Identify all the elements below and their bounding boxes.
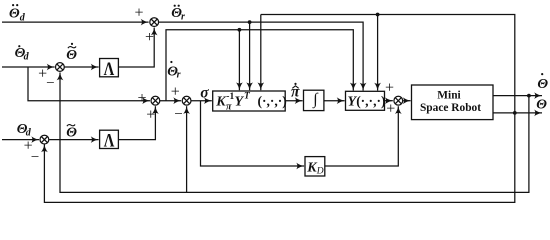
svg-text:r: r [177, 70, 181, 81]
svg-text:D: D [316, 167, 324, 177]
junction dot theta-dot output [527, 94, 531, 98]
svg-text:+: + [146, 106, 155, 123]
wire theta output [493, 112, 542, 114]
wire theta-d-r wrap to Y block [166, 30, 353, 101]
wire KD block to S6 [325, 106, 398, 166]
wire Y block to S6 [385, 100, 393, 102]
summing junction S2 [56, 63, 65, 72]
svg-text:−: − [31, 149, 39, 165]
junction dot theta-d-r branch [238, 28, 242, 32]
wire theta top into Kpi block [260, 15, 262, 91]
label theta-tilde-dot row2 [66, 43, 77, 63]
svg-text:Θ: Θ [66, 126, 77, 141]
wire Lambda1 to S1 [119, 28, 155, 67]
wire theta-dot feedback bottom [60, 73, 529, 193]
summing junction S3 [40, 135, 49, 144]
wire S2 to Lambda1 [64, 66, 98, 68]
wire theta feedback top wrap [44, 15, 514, 203]
svg-text:T: T [244, 92, 251, 102]
svg-text:-1: -1 [226, 92, 234, 102]
svg-text:+: + [145, 29, 154, 46]
block Lambda1 [100, 59, 119, 77]
svg-text:Mini: Mini [437, 89, 460, 101]
wire theta top into Y block [377, 15, 379, 91]
block Y regressor [346, 91, 385, 110]
wire theta-dd-r from S1 to Y block top [159, 22, 363, 90]
svg-text:Y: Y [235, 94, 245, 109]
label theta-d-d [15, 45, 30, 62]
svg-text:Λ: Λ [104, 58, 115, 79]
label theta-dd-d [9, 4, 26, 23]
svg-text:Λ: Λ [104, 130, 115, 151]
wire Lambda2 to S4 [119, 106, 156, 139]
wire theta-dot output [493, 95, 542, 97]
wire integrator to Y block [324, 100, 345, 102]
summing junction S4 [151, 96, 160, 105]
wire branch theta-dd-r down into Kpi block [249, 22, 251, 90]
svg-text:π: π [226, 101, 232, 112]
svg-text:(·,·,·): (·,·,·) [258, 93, 287, 108]
svg-text:Θ: Θ [9, 7, 20, 22]
svg-text:−: − [46, 75, 54, 91]
svg-text:σ: σ [200, 84, 209, 101]
block KD [305, 157, 325, 176]
junction dot theta-dd-r branch [248, 20, 252, 24]
wire theta-dot feedback into S5 [186, 106, 188, 192]
svg-text:+: + [386, 101, 395, 118]
wire Kpi block to integrator [285, 100, 302, 102]
svg-text:+: + [385, 80, 394, 97]
label theta-tilde row4 [66, 125, 77, 141]
svg-text:+: + [171, 84, 180, 101]
svg-text:r: r [181, 11, 185, 22]
wire S5 to Kpi block [191, 100, 212, 102]
wire theta-d input line [2, 139, 39, 141]
wire theta-d-d branch to S4 [28, 67, 150, 101]
wire theta-d-d input line [2, 66, 55, 68]
wire S3 to Lambda2 [49, 139, 98, 141]
wire theta-dd-d input line [2, 21, 149, 23]
svg-text:Θ: Θ [537, 77, 548, 92]
block Mini Space Robot [412, 85, 494, 120]
svg-text:Θ: Θ [66, 48, 77, 63]
block Lambda2 [100, 130, 119, 148]
label theta-d-r [167, 61, 180, 81]
svg-text:(·,·,·): (·,·,·) [356, 93, 385, 108]
label pi-hat-dot [291, 83, 300, 101]
wire S6 to robot block [403, 100, 410, 102]
summing junction S5 [182, 96, 191, 105]
wire sigma branch to KD block [201, 101, 305, 166]
svg-text:−: − [174, 107, 182, 123]
label theta-dot output [537, 73, 548, 92]
svg-text:+: + [135, 4, 144, 21]
label theta-dd-r [171, 5, 185, 23]
summing junction S6 [394, 96, 403, 105]
svg-text:d: d [24, 51, 30, 62]
svg-text:+: + [138, 90, 147, 107]
wire S4 to S5 [160, 100, 181, 102]
block Kpi inverse Y transpose [213, 91, 286, 111]
svg-text:∫: ∫ [312, 91, 319, 109]
junction dot theta top branch [376, 13, 380, 17]
label theta-d [17, 122, 32, 138]
junction dot theta output [513, 111, 517, 115]
block integrator [304, 90, 324, 110]
svg-text:Θ: Θ [536, 98, 547, 113]
summing junction S1 [150, 18, 159, 27]
wire theta-d-r branch into Kpi block [238, 30, 240, 90]
svg-text:Space Robot: Space Robot [420, 102, 481, 114]
